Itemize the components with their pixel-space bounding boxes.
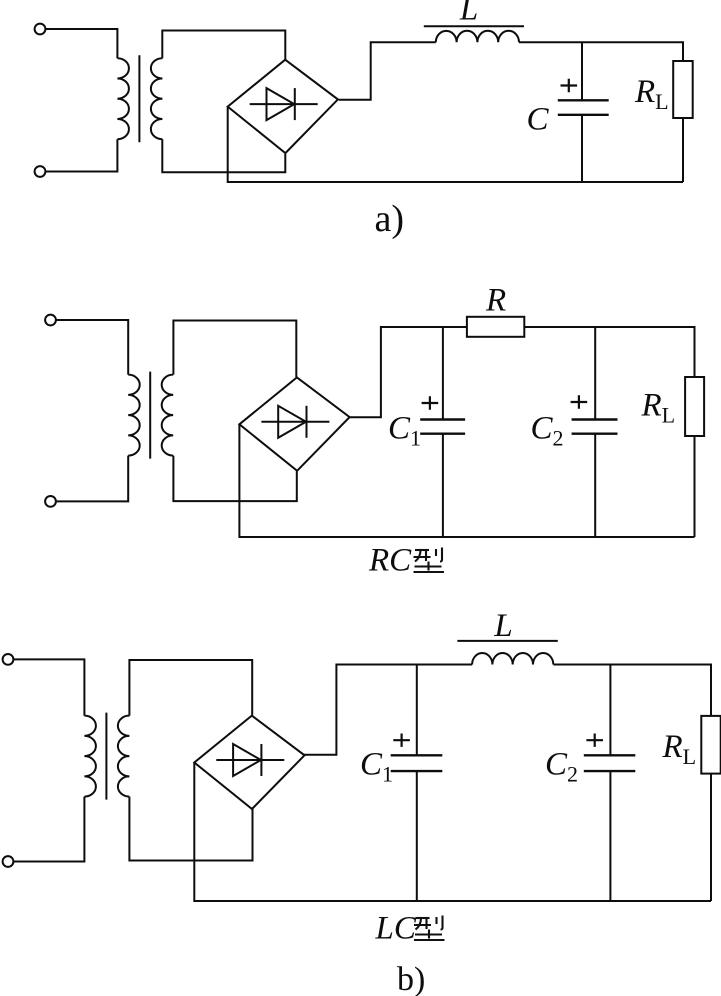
svg-text:L: L [493, 608, 512, 644]
svg-text:LC: LC [375, 911, 417, 947]
svg-text:R: R [485, 283, 506, 319]
svg-text:b): b) [397, 961, 425, 996]
svg-text:C: C [527, 101, 550, 137]
svg-text:L: L [459, 0, 478, 28]
svg-text:a): a) [375, 198, 405, 240]
svg-text:RC: RC [368, 543, 412, 579]
